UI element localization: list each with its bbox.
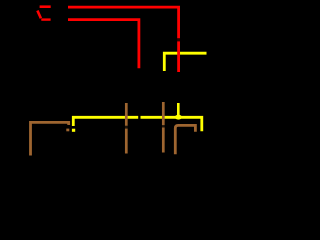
wire: brown right hook (vertical x=175.5 up, elbow, horizontal y=125 to x=196, end tick down) xyxy=(175,125,195,154)
wire: yellow bus left segment with drop at x=73 xyxy=(73,117,138,126)
wire: red second (y=19.5 from x=68 to corner x=139, down to y=68) xyxy=(68,20,139,69)
break in brown vertical 2 xyxy=(161,125,166,127)
break in red vertical at y=39 xyxy=(176,38,181,41)
break in brown vertical 1 xyxy=(124,126,129,129)
wire: red top (y=7 from x=68 to corner x=179, down to y=72) xyxy=(68,7,179,72)
node: solder blob at yellow T junction xyxy=(175,115,182,120)
coil loop bottom bar xyxy=(41,18,50,20)
wire: yellow bus right segment (x=140.5 to corner at x=202, down to y=131) xyxy=(141,117,202,131)
wire: yellow upper L (horizontal y=53 from x=164 to 207, vertical down at x=164 to y=71) xyxy=(164,53,206,71)
wire: yellow branch vertical at x=178 (y=103 to bus) xyxy=(177,103,180,117)
node: brown connector dot xyxy=(66,129,69,132)
wire: brown vertical 2 at x=163 xyxy=(162,102,165,153)
coil loop left diagonal xyxy=(37,11,41,19)
node: yellow connector dot below left drop xyxy=(72,129,75,132)
wire: brown vertical 1 at x=126 xyxy=(125,103,128,154)
wire: brown left hook (vertical x=30 y=122-155, horizontal to x=70, end tick down) xyxy=(31,122,69,155)
coil loop (red C shape), top bar xyxy=(40,5,51,8)
